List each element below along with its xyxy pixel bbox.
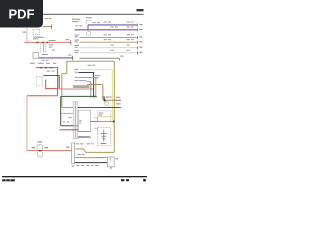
wire navy stub y72.5 [79, 73, 94, 98]
pin tick gray end [120, 56, 123, 57]
pin stub below B3 [110, 167, 112, 169]
junction dark marks on red line [36, 42, 48, 43]
connector box K1 (dashed, upper-left) [33, 30, 39, 35]
solenoid symbol inside B2 [101, 130, 107, 142]
wire tan elbow y84.5 -> x102.9 down -> y100.3 right [87, 85, 121, 101]
wire purple left segment [39, 57, 72, 59]
tiny mark above footer left-mid [72, 166, 75, 167]
node tick on pink feed [23, 31, 26, 34]
connector C2 inline bar pair (tall) [73, 102, 78, 139]
PDF badge [0, 0, 43, 28]
connector bar C4 (bottom-left of lower harness) [72, 143, 75, 164]
wire olive left drop (x66.8 corner to y73.6 then left) [62, 61, 67, 73]
label above yellow bus [88, 64, 95, 67]
label text above red line [38, 37, 70, 41]
connector gray bar (filled) y85-88 [73, 85, 90, 88]
tiny specks under header rule near badge [45, 17, 52, 20]
wire olive lower row y157.6 [75, 157, 107, 159]
label above olive-green [0, 0, 1, 1]
wire red horizontal R-line y42.4 [24, 41, 70, 43]
wire red horizontal y95.7 to left edge corner [27, 95, 58, 97]
label under solenoid [100, 143, 106, 144]
pin numbers right of purple ends [139, 24, 142, 30]
footer text right (sheet no.) [121, 179, 146, 181]
header rule [40, 14, 144, 15]
wire dark green loop: y96.4 across, down x60.7, bottom y126.3 [61, 96, 97, 125]
label text inside B1 [79, 120, 82, 123]
label 4a near connector [63, 117, 72, 122]
junction marks on red line 2 [40, 67, 52, 68]
wire pale bus 2 [80, 52, 138, 54]
connector bracket above purple link [86, 21, 90, 24]
label ticks left of stub stack [75, 69, 101, 81]
pin ticks purple right ends [136, 23, 139, 31]
wire red drop into K2 [43, 44, 45, 53]
wire olive-green y121.5 from B1 to junction dot [91, 121, 114, 123]
wire maroon y75.5 then down x59.2 to y89 [43, 76, 59, 90]
wire pink vertical feed (left, under badge) [26, 28, 28, 42]
pin bracket right of B1 lower [94, 128, 97, 132]
wire navy row y137 from bar with yellow tick [78, 136, 90, 138]
component box B3 (bottom right, white) [107, 157, 114, 167]
wire olive vertical x61.8 down then right into connector [62, 74, 73, 108]
label above tan run [102, 97, 111, 98]
wire purple bus 1 (top) [88, 24, 137, 26]
pin tick end of red line [69, 40, 72, 45]
wire maroon row y129.8 [59, 129, 78, 131]
tick yellow end of navy row [90, 136, 92, 138]
label left of C4 [66, 147, 70, 148]
label texts at left ends of brown/pale buses [75, 35, 79, 53]
wire black y162.6 [75, 162, 108, 164]
junction dot at olive vertical [113, 121, 115, 123]
label ticks beside F1 [32, 141, 48, 148]
wire red L-shape (y67.6 right to x57.6 then down) [36, 68, 58, 96]
label above C4 right [76, 142, 94, 145]
pin stub tan to right of olive vertical [115, 99, 121, 101]
label between red lines [47, 70, 55, 73]
svg-text:PDF: PDF [9, 7, 35, 22]
label text block left of red line 2 [30, 62, 56, 65]
label right of tan stub [116, 97, 120, 98]
wire gray-green row y125.8 into B1 [73, 125, 78, 127]
wire dark brown y107.5 from connector to right stub [73, 107, 121, 109]
junction dot tan/green [104, 99, 106, 101]
wire gray stub y81.8 down [87, 82, 91, 98]
pin dash columns below red line [40, 44, 45, 54]
splice circle S1 below purple bus 2 [87, 31, 91, 35]
wire purple vertical link [87, 25, 89, 30]
wire salmon stub y113.5 into connector [61, 113, 73, 115]
label left of B3 [96, 156, 103, 159]
label text below red line [49, 44, 55, 50]
component box B1 (mid, white) [78, 110, 90, 131]
component inline fuse F1 (bottom-left symbol) [37, 145, 43, 157]
footer rule [2, 176, 147, 177]
pin tick end purple left [71, 56, 74, 60]
wire yellow bus y69.6 with drop x112.4 [80, 70, 113, 122]
label texts around purple buses [72, 17, 134, 27]
label between olive rows [77, 153, 84, 156]
splice circle S2 below tan run [105, 102, 109, 106]
wire green drop right end into tan run [103, 96, 105, 100]
glow box faint outline [98, 111, 111, 122]
label text under K1 [33, 37, 41, 40]
label in glow box [99, 113, 104, 116]
label under black wire [76, 164, 98, 167]
wire red branch from K3 down to x57.6 [46, 80, 58, 89]
wire pink long vertical x26.9 down [26, 96, 28, 151]
connector box K2 (left column) [33, 52, 39, 58]
component box B2 (dashed, lower mid-right) [97, 128, 110, 146]
pin bracket right of B1 upper [94, 117, 97, 121]
divider inside B3 [110, 157, 112, 162]
wire lavender stub y80.7 [79, 80, 87, 82]
wire gray row y131.5 from bar [78, 131, 91, 133]
connector box K3 (dashed, left column tall) [36, 76, 42, 86]
label above purple left [42, 54, 72, 61]
wire pale-yellow y116.6 [98, 116, 114, 118]
junction dark segment on salmon line at F1 [39, 150, 42, 151]
wire salmon horizontal y89 [59, 88, 93, 90]
footer text left [2, 179, 15, 181]
wire purple bus 2 [75, 29, 138, 31]
node pin tick at end of brown stub [50, 24, 53, 28]
page background [0, 0, 149, 198]
wire brown bus 2 [80, 41, 138, 43]
wire gray bus y58.3 [80, 58, 120, 60]
header text top-right [137, 9, 144, 11]
wire olive long loop: top y61.3, down x114.3, bottom y152.4 back to connector [67, 61, 115, 152]
label texts above brown buses right [104, 34, 134, 50]
pin ticks right ends brown/pale [136, 36, 139, 54]
label right of brown stub [116, 103, 120, 104]
wire yellow-olive stub y77.5 [79, 78, 96, 98]
wire brown bus 1 [80, 36, 138, 38]
wire pale bus 1 [80, 47, 138, 49]
wire salmon bottom horizontal y150.6 [27, 150, 72, 152]
label right of B3 [115, 158, 118, 159]
wire brown stub top-left [43, 26, 52, 28]
